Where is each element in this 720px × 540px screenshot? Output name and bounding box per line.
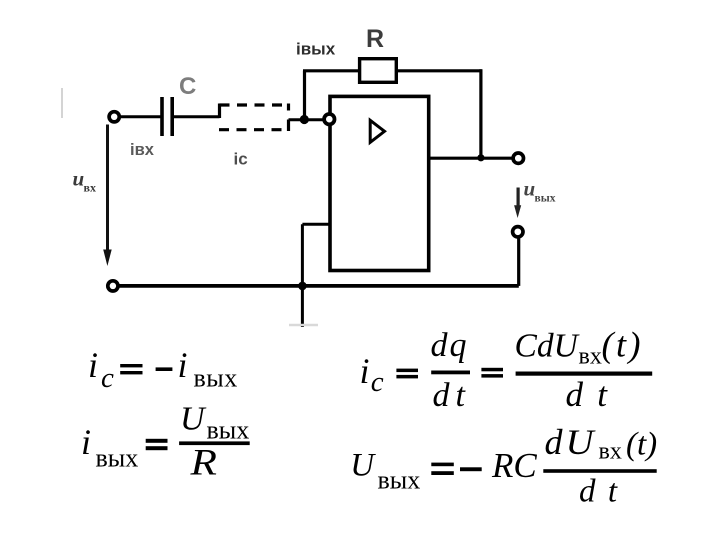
output junction node bbox=[477, 154, 484, 161]
faint ground smudge bbox=[289, 324, 318, 327]
svg-text:i: i bbox=[178, 345, 188, 385]
dashed box right solid corner (top) bbox=[287, 104, 290, 111]
op-amp lower input wire bbox=[302, 223, 328, 226]
op-amp input terminal (open circle) bbox=[324, 114, 334, 124]
svg-text:i: i bbox=[360, 351, 370, 391]
capacitor C right plate bbox=[170, 97, 174, 136]
svg-text:(t): (t) bbox=[626, 427, 657, 463]
svg-text:вых: вых bbox=[535, 193, 556, 205]
svg-text:C: C bbox=[179, 73, 196, 100]
svg-text:u: u bbox=[524, 177, 536, 201]
svg-text:i: i bbox=[81, 422, 91, 462]
svg-text:U: U bbox=[180, 401, 207, 438]
output terminal (open circle) bbox=[513, 153, 523, 163]
output wire bbox=[429, 157, 514, 160]
capacitor C left plate bbox=[160, 97, 164, 136]
svg-text:вх: вх bbox=[579, 343, 602, 369]
dashed box left solid edge bbox=[218, 104, 221, 119]
svg-text:dt: dt bbox=[433, 377, 467, 414]
bottom-left terminal (open circle) bbox=[108, 281, 118, 291]
op-amp U1 body bbox=[330, 96, 429, 270]
faint scan artifact line bbox=[61, 88, 63, 118]
ground stub wire vertical bbox=[301, 224, 304, 327]
feedback wire resistor to output bbox=[398, 69, 482, 72]
svg-text:iвх: iвх bbox=[130, 141, 155, 159]
svg-text:вых: вых bbox=[207, 416, 250, 445]
svg-text:u: u bbox=[73, 167, 85, 191]
formula 3: ic = dq/dt = CdU_vh(t)/dt bbox=[360, 325, 653, 415]
formula 4: U_vyh = -RC dU_vh(t)/dt bbox=[350, 422, 657, 509]
u vyh voltage arrow bbox=[514, 188, 521, 219]
resistor R bbox=[360, 59, 397, 83]
formula 2: i_vyh = U_vyh / R bbox=[81, 401, 250, 483]
wire capacitor to dashed box bbox=[174, 115, 220, 118]
svg-text:(t): (t) bbox=[602, 325, 643, 365]
lower output terminal (open circle) bbox=[513, 227, 523, 237]
feedback wire down to output node bbox=[479, 69, 482, 158]
svg-text:CdU: CdU bbox=[515, 328, 581, 365]
svg-text:вх: вх bbox=[599, 438, 622, 464]
feedback wire up from junction bbox=[303, 71, 306, 117]
svg-text:dt: dt bbox=[566, 375, 609, 414]
formula 1: ic = -i_vyh bbox=[88, 345, 238, 394]
svg-text:вых: вых bbox=[194, 363, 238, 392]
svg-text:dq: dq bbox=[431, 327, 467, 364]
dashed box ic (bottom edge) bbox=[219, 128, 289, 131]
bottom rail junction node bbox=[298, 282, 307, 291]
svg-text:R: R bbox=[366, 25, 384, 53]
svg-text:i: i bbox=[88, 345, 98, 385]
svg-text:вых: вых bbox=[378, 466, 421, 495]
bottom rail wire bbox=[118, 284, 519, 288]
svg-text:R: R bbox=[189, 441, 217, 482]
junction node (input / feedback) bbox=[300, 115, 309, 124]
svg-text:dt: dt bbox=[579, 473, 618, 509]
svg-text:вых: вых bbox=[96, 444, 139, 473]
u vh voltage arrow (left) bbox=[103, 125, 112, 267]
feedback wire to resistor bbox=[303, 69, 359, 72]
svg-text:c: c bbox=[101, 362, 114, 394]
dashed box right solid corner (bottom) bbox=[287, 120, 290, 132]
op-amp triangle symbol bbox=[370, 120, 384, 142]
svg-text:RC: RC bbox=[491, 446, 537, 485]
svg-text:c: c bbox=[371, 366, 384, 398]
svg-text:iвых: iвых bbox=[296, 40, 336, 59]
svg-text:U: U bbox=[566, 422, 596, 462]
wire dashed box to op-amp input bbox=[289, 118, 328, 121]
svg-text:ic: ic bbox=[234, 150, 248, 169]
wire input to capacitor bbox=[121, 115, 161, 118]
svg-text:d: d bbox=[545, 422, 564, 462]
wire lower output terminal down bbox=[517, 237, 520, 286]
input terminal (left, open circle) bbox=[109, 112, 119, 122]
dashed box ic (top edge) bbox=[220, 103, 289, 106]
svg-text:U: U bbox=[350, 448, 376, 484]
svg-text:вх: вх bbox=[84, 181, 96, 195]
